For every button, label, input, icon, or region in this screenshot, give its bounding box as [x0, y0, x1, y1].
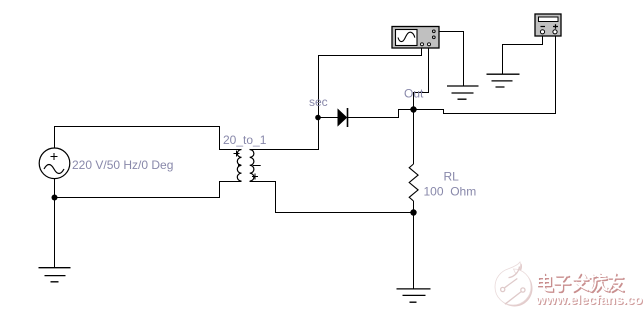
svg-text:www.elecfans.com: www.elecfans.com: [535, 292, 643, 307]
